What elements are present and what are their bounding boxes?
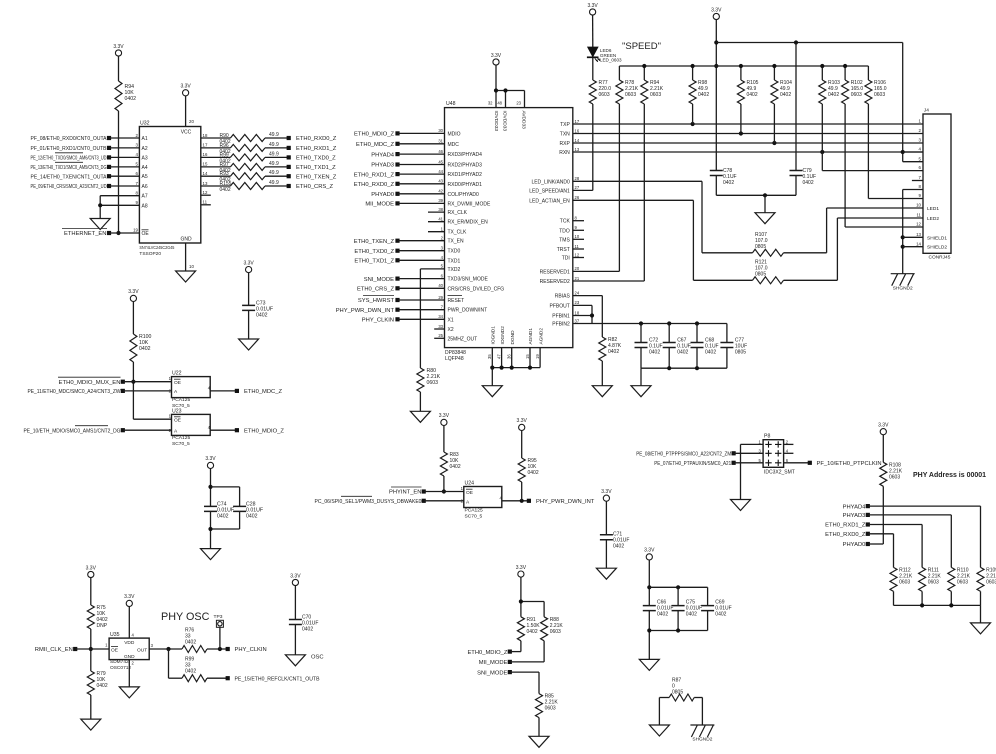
wire U24 output bbox=[502, 500, 529, 502]
svg-text:46: 46 bbox=[438, 149, 443, 154]
net label PHYAD3 bbox=[866, 513, 870, 517]
svg-text:0603: 0603 bbox=[625, 92, 636, 98]
svg-text:MII_MODE: MII_MODE bbox=[365, 202, 394, 208]
wire TXP bbox=[573, 123, 923, 125]
svg-text:TXN: TXN bbox=[560, 132, 570, 138]
svg-text:PHYAD0: PHYAD0 bbox=[843, 542, 866, 548]
svg-text:3.3V: 3.3V bbox=[491, 53, 502, 59]
svg-text:11: 11 bbox=[203, 200, 208, 205]
wire R94 to RESERVED2 bbox=[643, 104, 645, 281]
svg-text:0402: 0402 bbox=[608, 349, 619, 355]
svg-text:0603: 0603 bbox=[427, 380, 439, 386]
wire ETH0_CRS_Z to U48 CRS/CRS_DV/LED_CFG bbox=[395, 286, 399, 290]
svg-text:CRS/CRS_DV/LED_CFG: CRS/CRS_DV/LED_CFG bbox=[448, 286, 505, 292]
resistor R76 33 0402 bbox=[182, 646, 207, 653]
svg-text:PHY_CLKIN: PHY_CLKIN bbox=[235, 647, 267, 653]
svg-text:25MHZ_OUT: 25MHZ_OUT bbox=[448, 336, 478, 342]
ground (U32 A7/A8) bbox=[90, 219, 110, 230]
wire ETH0_MDC_Z to U48 MDC bbox=[395, 142, 399, 146]
svg-text:39: 39 bbox=[438, 198, 443, 203]
svg-text:VDD: VDD bbox=[124, 640, 135, 646]
resistor R105 49.9 0402 bbox=[737, 80, 744, 104]
wire bottom bus bbox=[648, 611, 650, 660]
net label PE_11/ETH0_MDC/SMC0_A24/CNT3_ZW bbox=[121, 389, 125, 393]
svg-text:A5: A5 bbox=[142, 174, 148, 180]
svg-text:U22: U22 bbox=[172, 371, 182, 377]
resistor R87 0 0805 bbox=[669, 694, 694, 701]
chassis ground SHGND2 (R87) bbox=[690, 725, 714, 737]
power 3.3V (U35 VDD) bbox=[126, 600, 132, 606]
wire R102 to pin12 bbox=[844, 104, 846, 227]
svg-text:0402: 0402 bbox=[698, 92, 709, 98]
header P8 IDC3X2_SMT bbox=[763, 440, 784, 468]
svg-text:U23: U23 bbox=[172, 408, 182, 414]
wire R121 to LED2 pin11 bbox=[784, 279, 838, 281]
wire to ground bbox=[764, 195, 766, 212]
svg-text:34: 34 bbox=[438, 314, 443, 319]
power 3.3V (C70) bbox=[292, 579, 298, 585]
ground (C71) bbox=[596, 568, 616, 579]
wire R87 left to ground bbox=[659, 697, 669, 699]
svg-text:RX_CLK: RX_CLK bbox=[448, 210, 468, 216]
capacitor C69 0.01UF 0402 bbox=[701, 606, 714, 611]
wire ETH0_TXD1_Z to U48 TXD1 bbox=[395, 258, 399, 262]
wire LED_ACT to R121 bbox=[573, 199, 694, 201]
svg-text:0402: 0402 bbox=[715, 612, 726, 618]
resistor R80 2.21K 0603 bbox=[417, 368, 424, 392]
net label PE_08/ETH0_PTPPPS/SMC0_A22/CNT2_ZM bbox=[732, 451, 736, 455]
wire input A2 bbox=[107, 146, 111, 150]
svg-text:TRST: TRST bbox=[557, 247, 570, 253]
svg-text:TSSOP20: TSSOP20 bbox=[139, 251, 161, 257]
node PFBIN1 junction bbox=[590, 313, 594, 317]
wire R112 bottom bbox=[893, 591, 895, 605]
svg-text:3.3V: 3.3V bbox=[516, 565, 527, 571]
capacitor C67 0.1UF bbox=[668, 324, 670, 343]
svg-text:0402: 0402 bbox=[613, 544, 624, 550]
svg-text:0603: 0603 bbox=[545, 706, 556, 712]
svg-text:49.9: 49.9 bbox=[269, 170, 279, 176]
wire ETHERNET_EN to OE pin bbox=[109, 232, 139, 234]
wire R88 to MII_MODE bbox=[543, 641, 545, 662]
node C75 bottom junction bbox=[676, 628, 680, 632]
svg-text:3.3V: 3.3V bbox=[86, 565, 97, 571]
wire PHYAD4 bbox=[868, 505, 981, 507]
svg-text:18: 18 bbox=[575, 310, 580, 315]
svg-text:LQFP48: LQFP48 bbox=[445, 356, 464, 362]
svg-text:17: 17 bbox=[203, 143, 208, 148]
svg-text:30: 30 bbox=[438, 128, 443, 133]
svg-text:23: 23 bbox=[575, 300, 580, 305]
svg-text:14: 14 bbox=[203, 171, 208, 176]
resistor R96 49.9 0402 bbox=[230, 144, 265, 151]
svg-text:0402: 0402 bbox=[527, 629, 538, 635]
svg-text:PE_14/ETH0_TXEN/CNT1_OUTA: PE_14/ETH0_TXEN/CNT1_OUTA bbox=[31, 174, 107, 180]
wire input A1 bbox=[107, 136, 111, 140]
wire SYS_HWRST to U48 RESET bbox=[395, 298, 399, 302]
svg-text:0805: 0805 bbox=[755, 244, 766, 250]
svg-text:17: 17 bbox=[575, 119, 580, 124]
svg-text:PE_10/ETH_MDIO/SMC0_AMS1/CNT2_: PE_10/ETH_MDIO/SMC0_AMS1/CNT2_DG bbox=[24, 428, 121, 434]
power 3.3V (R100) bbox=[130, 295, 136, 301]
net label PHYAD0 bbox=[866, 542, 870, 546]
wire ETH0_RXD1_Z bbox=[868, 524, 922, 526]
svg-text:TXD1: TXD1 bbox=[448, 258, 461, 264]
svg-text:PWR_DOWN/INT: PWR_DOWN/INT bbox=[448, 308, 488, 314]
wire P8 pin1 to ground bbox=[741, 443, 764, 445]
buffer U24 bbox=[464, 487, 502, 508]
buffer U23 bbox=[172, 414, 211, 435]
wire MII_MODE to U48 RX_DV/MII_MODE bbox=[395, 201, 399, 205]
resistor R111 2.21K 0603 bbox=[919, 567, 926, 591]
wire R109 bottom bbox=[980, 591, 982, 605]
svg-text:0402: 0402 bbox=[747, 92, 758, 98]
node C74 bottom junction bbox=[208, 527, 212, 531]
svg-text:PHYAD3: PHYAD3 bbox=[843, 513, 866, 519]
svg-text:PE_15/ETH0_REFCLK/CNT1_OUTB: PE_15/ETH0_REFCLK/CNT1_OUTB bbox=[235, 676, 320, 682]
svg-text:44: 44 bbox=[438, 169, 443, 174]
svg-text:SHIELD1: SHIELD1 bbox=[927, 235, 947, 241]
wire to ground bbox=[640, 368, 642, 386]
svg-text:OSC0712: OSC0712 bbox=[110, 665, 131, 671]
svg-text:IDC3X2_SMT: IDC3X2_SMT bbox=[764, 469, 795, 475]
wire OUT branch down bbox=[168, 649, 170, 678]
ground (C78/C79) bbox=[755, 213, 775, 224]
node cap gnd junction bbox=[763, 193, 767, 197]
svg-text:10: 10 bbox=[916, 203, 921, 208]
svg-text:PE_13/ETH0_TXD1/SMC0_AM5/CNT3_: PE_13/ETH0_TXD1/SMC0_AM5/CNT3_DG bbox=[31, 165, 107, 171]
svg-text:OE: OE bbox=[174, 380, 181, 386]
svg-text:0402: 0402 bbox=[217, 514, 229, 520]
svg-text:11: 11 bbox=[916, 213, 921, 218]
ground (U32) bbox=[176, 271, 196, 282]
svg-text:TP3: TP3 bbox=[214, 614, 223, 620]
node PHYINT_EN junction bbox=[442, 489, 446, 493]
svg-text:PHYAD4: PHYAD4 bbox=[843, 504, 867, 510]
wire U23 output bbox=[210, 429, 237, 431]
svg-text:RXN: RXN bbox=[559, 150, 570, 156]
wire PHYAD3 to U48 RXD2/PHYAD3 bbox=[395, 162, 399, 166]
node C66 top junction bbox=[647, 585, 651, 589]
svg-text:40: 40 bbox=[438, 283, 443, 288]
wire R98 to TXP bbox=[692, 104, 694, 124]
ground (P8) bbox=[731, 500, 751, 511]
wire ETH0_RXD0_Z to U48 RXD0/PHYAD1 bbox=[395, 182, 399, 186]
svg-text:28: 28 bbox=[575, 176, 580, 181]
svg-text:SNI_MODE: SNI_MODE bbox=[364, 277, 394, 283]
wire R87 right to chassis bbox=[694, 697, 702, 699]
U48 ground pins bbox=[491, 348, 493, 368]
svg-text:49.9: 49.9 bbox=[269, 161, 279, 167]
buffer U32 bbox=[139, 127, 200, 244]
resistor R112 2.21K 0603 bbox=[890, 567, 897, 591]
resistor R91 1.50K 0402 bbox=[517, 617, 524, 641]
svg-text:3.3V: 3.3V bbox=[711, 7, 722, 13]
svg-text:18: 18 bbox=[203, 133, 208, 138]
svg-text:PF_10/ETH0_PTPCLKIN: PF_10/ETH0_PTPCLKIN bbox=[817, 461, 882, 467]
wire R108 to PHYAD0 bbox=[882, 486, 884, 544]
svg-text:0603: 0603 bbox=[889, 474, 900, 480]
svg-text:13: 13 bbox=[203, 181, 208, 186]
wire U22 output bbox=[210, 390, 237, 392]
svg-text:PHYAD4: PHYAD4 bbox=[371, 152, 395, 158]
wire R100 to OE nets bbox=[132, 362, 134, 419]
svg-text:35: 35 bbox=[487, 354, 492, 359]
capacitor C79 0.1UF 0402 bbox=[790, 171, 803, 176]
wire MII_MODE bbox=[510, 661, 544, 663]
svg-text:SYS_HWRST: SYS_HWRST bbox=[358, 298, 395, 304]
PHY U48 DP83848 bbox=[445, 108, 573, 348]
buffer U22 bbox=[172, 377, 211, 398]
svg-text:ETH0_MDIO_Z: ETH0_MDIO_Z bbox=[354, 132, 394, 138]
resistor R100 10K 0402 bbox=[130, 334, 137, 362]
ground (C70) bbox=[285, 655, 305, 666]
svg-text:49.9: 49.9 bbox=[269, 142, 279, 148]
wire P8 pin6 to PF_10 bbox=[784, 462, 810, 464]
svg-text:29: 29 bbox=[438, 295, 443, 300]
svg-text:PHYAD0: PHYAD0 bbox=[371, 192, 394, 198]
svg-text:ETH0_RXD0_Z: ETH0_RXD0_Z bbox=[825, 532, 866, 538]
svg-text:DGND: DGND bbox=[510, 330, 516, 345]
connector J4 RJ45 magjack bbox=[923, 114, 951, 253]
svg-text:0402: 0402 bbox=[185, 640, 196, 646]
svg-text:3.3V: 3.3V bbox=[601, 489, 612, 495]
svg-text:43: 43 bbox=[438, 179, 443, 184]
ground (U48) bbox=[482, 386, 502, 397]
stub TX_CLK bbox=[428, 231, 445, 233]
net label ETHERNET_EN bbox=[107, 231, 111, 235]
svg-text:15: 15 bbox=[203, 162, 208, 167]
svg-text:0402: 0402 bbox=[220, 187, 231, 193]
svg-text:X2: X2 bbox=[448, 327, 454, 333]
svg-text:0805: 0805 bbox=[755, 272, 766, 278]
node R105 junction bbox=[739, 131, 743, 135]
wire input A4 bbox=[107, 165, 111, 169]
node pin14 junction bbox=[901, 245, 905, 249]
capacitor C71 0.01UF 0402 bbox=[600, 535, 613, 540]
wire U32 GND pin bbox=[185, 243, 187, 271]
svg-text:47: 47 bbox=[496, 354, 501, 359]
svg-text:24: 24 bbox=[575, 290, 580, 295]
svg-text:SN74LVC245C2G45: SN74LVC245C2G45 bbox=[139, 245, 174, 251]
svg-text:PHYAD3: PHYAD3 bbox=[371, 163, 394, 169]
svg-text:14: 14 bbox=[575, 138, 580, 143]
svg-text:12: 12 bbox=[203, 190, 208, 195]
svg-text:J4: J4 bbox=[924, 108, 929, 114]
wire R95 to output bbox=[521, 482, 523, 501]
svg-text:0402: 0402 bbox=[705, 350, 716, 356]
wire U35 GND bbox=[128, 660, 130, 687]
svg-text:ETH0_MDIO_Z: ETH0_MDIO_Z bbox=[244, 428, 284, 434]
net label ETH0_RXD0_Z bbox=[866, 532, 870, 536]
stub 25MHZ_OUT bbox=[434, 337, 444, 339]
wire R99 to PE_15 bbox=[207, 677, 228, 679]
wire R85 to ground bbox=[538, 718, 540, 737]
svg-text:ETH0_TXD0_Z: ETH0_TXD0_Z bbox=[354, 249, 394, 255]
svg-text:SNI_MODE: SNI_MODE bbox=[477, 670, 507, 676]
svg-text:AGND1: AGND1 bbox=[528, 328, 534, 345]
power 3.3V (U32 VCC) bbox=[183, 90, 189, 96]
stub TDO bbox=[573, 229, 584, 231]
resistor R90 49.9 0402 bbox=[230, 135, 265, 142]
wire PE_07 to P8 pin5 bbox=[734, 462, 764, 464]
svg-text:LED_ACT/AN_EN: LED_ACT/AN_EN bbox=[529, 198, 570, 204]
svg-text:P8: P8 bbox=[764, 434, 770, 440]
net label SNI_MODE bbox=[508, 670, 512, 674]
svg-text:3.3V: 3.3V bbox=[113, 44, 124, 50]
wire P8 pin2 stub bbox=[784, 443, 794, 445]
capacitor C72 0.1UF bbox=[640, 324, 642, 343]
net label MII_MODE bbox=[508, 660, 512, 664]
svg-text:RBIAS: RBIAS bbox=[555, 294, 571, 300]
wire pin14 stub bbox=[903, 246, 923, 248]
svg-text:IOGND1: IOGND1 bbox=[491, 326, 497, 345]
svg-text:0402: 0402 bbox=[302, 627, 313, 633]
wire MUX_EN to U22 OE bbox=[123, 381, 172, 383]
wire RXN bbox=[573, 151, 923, 153]
svg-text:RESERVED2: RESERVED2 bbox=[540, 279, 570, 285]
svg-text:TDO: TDO bbox=[559, 228, 570, 234]
capacitor C66 0.01UF 0402 bbox=[643, 606, 656, 611]
wire PFBIN2 to cap bank bbox=[573, 323, 727, 325]
wire PHY_CLKIN to U48 X1 bbox=[395, 317, 399, 321]
power 3.3V (C74/C28) bbox=[207, 462, 213, 468]
svg-text:ETH0_RXD0_Z: ETH0_RXD0_Z bbox=[296, 136, 337, 142]
svg-text:0402: 0402 bbox=[256, 313, 268, 319]
svg-text:A6: A6 bbox=[142, 184, 148, 190]
svg-text:32: 32 bbox=[488, 101, 493, 106]
capacitor C73 0.01UF 0402 bbox=[242, 305, 255, 310]
svg-text:RXD0/PHYAD1: RXD0/PHYAD1 bbox=[448, 182, 483, 188]
svg-text:OUT: OUT bbox=[137, 647, 147, 653]
svg-text:45: 45 bbox=[438, 159, 443, 164]
node OUT junction bbox=[166, 647, 170, 651]
svg-text:GND: GND bbox=[124, 654, 135, 660]
svg-text:0402: 0402 bbox=[828, 92, 839, 98]
wire input A6 bbox=[107, 184, 111, 188]
svg-text:3.3V: 3.3V bbox=[878, 423, 889, 429]
svg-text:0603: 0603 bbox=[851, 92, 862, 98]
wire C78/C79 ground bus bbox=[715, 176, 717, 196]
svg-text:TXD3/SNI_MODE: TXD3/SNI_MODE bbox=[448, 277, 489, 283]
svg-text:PE_11/ETH0_MDC/SMC0_A24/CNT3_Z: PE_11/ETH0_MDC/SMC0_A24/CNT3_ZW bbox=[28, 389, 121, 395]
svg-text:ETH0_RXD0_Z: ETH0_RXD0_Z bbox=[354, 182, 395, 188]
ground (C66 bank) bbox=[639, 659, 659, 670]
wire PE_10 to U23 A bbox=[123, 429, 172, 431]
power 3.3V (C66 bank) bbox=[646, 554, 652, 560]
wire R111 bottom bbox=[921, 591, 923, 605]
wire ETH0_RXD0_Z bbox=[868, 533, 894, 535]
capacitor C28 0.01UF 0402 bbox=[233, 506, 246, 511]
svg-text:RX_DV/MII_MODE: RX_DV/MII_MODE bbox=[448, 201, 491, 207]
resistor R102 165.0 0603 bbox=[842, 80, 849, 104]
svg-text:TXD2: TXD2 bbox=[448, 267, 461, 273]
svg-text:13: 13 bbox=[916, 232, 921, 237]
svg-text:27: 27 bbox=[575, 185, 580, 190]
svg-text:3.3V: 3.3V bbox=[290, 573, 301, 579]
capacitor C74 0.01UF 0402 bbox=[204, 506, 217, 511]
svg-text:COL/PHYAD0: COL/PHYAD0 bbox=[448, 192, 480, 198]
wire to net ETH0_TXEN_Z bbox=[265, 175, 289, 177]
svg-text:LED1: LED1 bbox=[927, 206, 939, 212]
svg-text:PCA125: PCA125 bbox=[172, 435, 190, 441]
svg-text:15: 15 bbox=[525, 354, 530, 359]
wire pull-up bus bbox=[619, 65, 868, 67]
svg-text:SHGND2: SHGND2 bbox=[692, 737, 712, 743]
wire A8 to ground bbox=[100, 204, 139, 206]
wire RBIAS to R82 bbox=[573, 295, 603, 297]
power 3.3V (termination) bbox=[713, 13, 719, 19]
wire to net ETH0_RXD1_Z bbox=[265, 147, 289, 149]
svg-text:48: 48 bbox=[497, 101, 502, 106]
wire MUX_EN to U23 OE bbox=[133, 418, 171, 420]
wire P8 pin4 stub bbox=[784, 452, 794, 454]
svg-text:ETH0_TXEN_Z: ETH0_TXEN_Z bbox=[354, 239, 395, 245]
svg-text:IOVDD33: IOVDD33 bbox=[501, 111, 507, 132]
svg-text:RESET: RESET bbox=[448, 298, 465, 304]
wire C70 to ground bbox=[294, 625, 296, 655]
wire TP3 bbox=[219, 627, 221, 649]
wire ETH0_MDIO_Z bbox=[510, 651, 521, 653]
power 3.3V (C71) bbox=[603, 495, 609, 501]
capacitor C70 0.01UF 0402 bbox=[289, 620, 302, 625]
svg-text:20: 20 bbox=[189, 119, 194, 124]
wire pin13 stub bbox=[903, 236, 923, 238]
wire TXD2 to R80 bbox=[420, 268, 444, 270]
svg-text:ETH0_RXD1_Z: ETH0_RXD1_Z bbox=[354, 172, 395, 178]
resistor R94 2.21K 0603 bbox=[641, 80, 648, 104]
wire to ground bbox=[980, 605, 982, 623]
resistor R78 2.21K 0603 bbox=[616, 80, 623, 104]
wire R94 to OE net bbox=[118, 111, 120, 233]
wire pin8 shield bbox=[903, 189, 923, 191]
svg-text:PHY_PWR_DWN_INT: PHY_PWR_DWN_INT bbox=[536, 499, 595, 505]
wire RMII_CLK_EN to U35 OE bbox=[75, 648, 109, 650]
svg-text:LED_SPEED/AN1: LED_SPEED/AN1 bbox=[529, 188, 570, 194]
svg-text:3.3V: 3.3V bbox=[205, 456, 216, 462]
svg-text:U48: U48 bbox=[446, 101, 456, 107]
svg-text:A8: A8 bbox=[142, 203, 148, 209]
svg-text:ETH0_TXD1_Z: ETH0_TXD1_Z bbox=[296, 165, 336, 171]
ground (R80) bbox=[410, 411, 430, 422]
svg-text:0402: 0402 bbox=[723, 180, 734, 186]
wire C75 top bbox=[677, 587, 679, 605]
wire U35 OUT bbox=[149, 648, 182, 650]
svg-text:GND: GND bbox=[180, 237, 192, 243]
wire R75 to RMII_CLK_EN bbox=[90, 629, 92, 671]
svg-text:RXP: RXP bbox=[560, 141, 571, 147]
svg-text:MII_MODE: MII_MODE bbox=[479, 660, 508, 666]
wire LED6 to R77 bbox=[592, 57, 594, 80]
svg-text:0402: 0402 bbox=[185, 669, 196, 675]
node R95 junction bbox=[520, 499, 524, 503]
resistor R85 2.21K 0603 bbox=[536, 694, 543, 718]
resistor R107 107.0 0805 bbox=[753, 249, 784, 256]
svg-text:ETH0_CRS_Z: ETH0_CRS_Z bbox=[296, 184, 334, 190]
svg-text:X1: X1 bbox=[448, 317, 454, 323]
node pull-up bus junction bbox=[714, 64, 718, 68]
wire R78 to RESERVED1 bbox=[618, 104, 620, 271]
wire A7 to ground bbox=[100, 195, 139, 197]
svg-text:0402: 0402 bbox=[803, 180, 814, 186]
svg-text:RXD2/PHYAD3: RXD2/PHYAD3 bbox=[448, 163, 483, 169]
svg-text:0402: 0402 bbox=[246, 514, 258, 520]
ground (C74/C28) bbox=[201, 549, 221, 560]
node R91 top junction bbox=[519, 599, 523, 603]
node C72 junction bbox=[639, 321, 643, 325]
wire R82 to ground bbox=[601, 361, 603, 386]
svg-text:10: 10 bbox=[575, 234, 580, 239]
